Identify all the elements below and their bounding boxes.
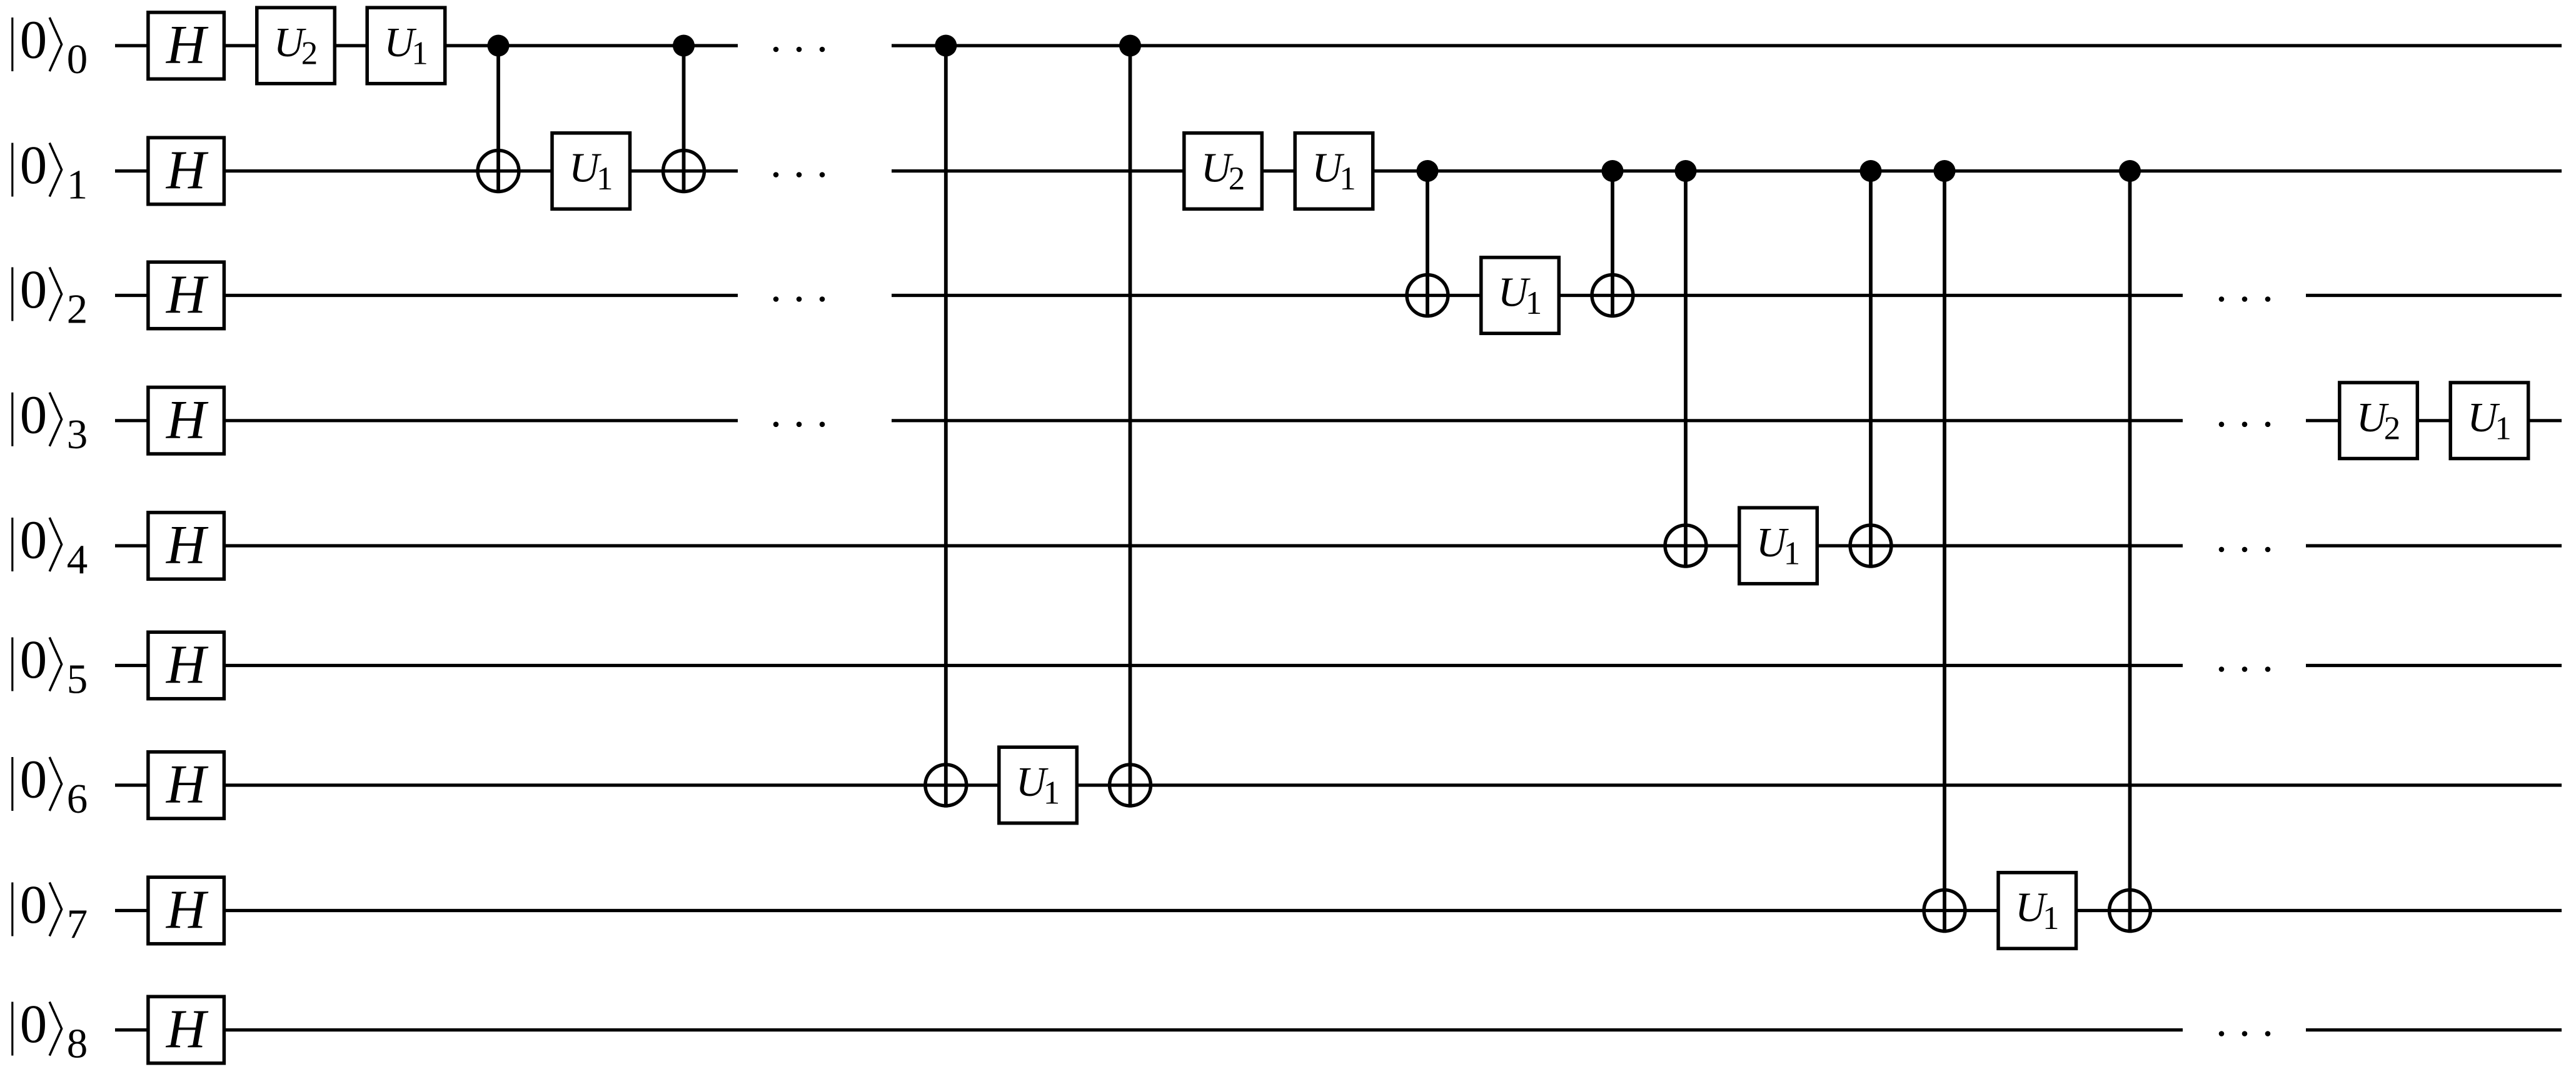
svg-text:1: 1 [1784,536,1801,572]
svg-text:1: 1 [1044,775,1060,811]
svg-text:1: 1 [67,162,88,208]
wire vertical control q0 to target q1 at x=797 [496,46,500,193]
gate H q6 [148,752,224,819]
gate U2 q3 at x=3804 [2340,383,2418,459]
gate U2 q0 at x=473 [257,8,335,84]
wire q8 segment 0 [115,1028,2183,1031]
svg-text:0: 0 [67,36,88,83]
wire q7 segment 0 [115,909,2562,912]
cnot target q2 at x=2579 [1592,275,1633,316]
svg-text:3: 3 [67,411,88,458]
control dot q0 at x=797 [488,35,510,57]
wire q0 segment 0 [115,44,738,47]
svg-text:H: H [166,515,209,576]
wire vertical control q1 to target q2 at x=2283 [1426,171,1429,318]
control dot q1 at x=2992 [1860,160,1882,182]
wire vertical control q1 to target q4 at x=2696 [1684,171,1688,568]
gate H q7 [148,877,224,944]
node label ket |0>_3 qubit q3 [11,384,88,458]
gate H q8 [148,996,224,1063]
gate U2 q1 at x=1956 [1184,133,1262,209]
gate U1 q1 at x=945.2 [552,133,630,209]
control dot q1 at x=3406.5 [2119,160,2141,182]
gate U1 q2 at x=2431 [1481,258,1559,334]
svg-text:2: 2 [1229,161,1245,197]
svg-text:4: 4 [67,536,88,583]
cnot target q6 at x=1807.5 [1110,765,1151,806]
cnot target q7 at x=3110 [1924,890,1965,931]
ellipsis dots q2 at x=3553-3627 [2219,296,2271,302]
svg-text:6: 6 [67,776,88,822]
svg-text:8: 8 [67,1021,88,1067]
control dot q0 at x=1093.5 [673,35,695,57]
ellipsis dots q1 at x=1241-1315 [773,172,825,178]
control dot q1 at x=3110 [1934,160,1956,182]
cnot target q7 at x=3406.5 [2110,890,2151,931]
control dot q1 at x=2579 [1602,160,1624,182]
svg-text:H: H [166,755,209,815]
wire vertical control q1 to target q2 at x=2579 [1611,171,1614,318]
wire vertical control q0 to target q6 at x=1807.5 [1129,46,1132,808]
gate U1 q0 at x=649.5 [367,8,445,84]
node label ket |0>_0 qubit q0 [11,9,88,83]
svg-text:5: 5 [67,656,88,703]
gate H q2 [148,262,224,329]
svg-text:0: 0 [20,993,48,1054]
wire q2 segment 0 [115,294,738,297]
wire q4 segment 0 [115,544,2183,547]
ellipsis dots q3 at x=3553-3627 [2219,422,2271,428]
wire q0 segment 1 [892,44,2562,47]
svg-text:H: H [166,635,209,695]
svg-text:0: 0 [20,509,48,570]
control dot q0 at x=1807.5 [1119,35,1141,57]
gate H q5 [148,632,224,698]
wire vertical control q1 to target q4 at x=2992 [1869,171,1873,568]
svg-text:1: 1 [596,161,613,197]
cnot target q2 at x=2283 [1407,275,1448,316]
cnot target q4 at x=2696 [1665,525,1706,566]
svg-text:1: 1 [2495,410,2512,446]
control dot q1 at x=2283 [1417,160,1439,182]
wire q2 segment 2 [2306,294,2562,297]
node label ket |0>_7 qubit q7 [11,874,88,948]
gate H q3 [148,388,224,454]
wire q8 segment 1 [2306,1028,2562,1031]
svg-text:0: 0 [20,384,48,444]
cnot target q4 at x=2992 [1850,525,1891,566]
ellipsis dots q4 at x=3553-3627 [2219,547,2271,553]
cnot target q6 at x=1512.8 [925,765,967,806]
svg-text:1: 1 [1339,161,1356,197]
ellipsis dots q3 at x=1241-1315 [773,422,825,428]
gate U1 q3 at x=3981.5 [2450,383,2528,459]
control dot q0 at x=1512.8 [935,35,957,57]
control dot q1 at x=2696 [1675,160,1697,182]
wire q1 segment 1 [892,169,2562,173]
wire q3 segment 0 [115,419,738,422]
svg-text:0: 0 [20,9,48,70]
svg-text:0: 0 [20,134,48,195]
node label ket |0>_5 qubit q5 [11,629,88,703]
wire q2 segment 1 [892,294,2183,297]
svg-text:H: H [166,15,209,76]
wire vertical control q0 to target q1 at x=1093.5 [682,46,686,193]
wire q3 segment 1 [892,419,2183,422]
node label ket |0>_2 qubit q2 [11,259,88,333]
gate H q4 [148,513,224,580]
svg-text:H: H [166,389,209,450]
wire vertical control q1 to target q7 at x=3406.5 [2128,171,2132,933]
cnot target q1 at x=1093.5 [663,151,705,192]
gate U1 q4 at x=2844 [1739,508,1818,584]
wire vertical control q0 to target q6 at x=1512.8 [944,46,948,808]
svg-text:1: 1 [2043,900,2060,936]
wire vertical control q1 to target q7 at x=3110 [1943,171,1946,933]
cnot target q1 at x=797 [478,151,519,192]
gate H q0 [148,13,224,79]
node label ket |0>_6 qubit q6 [11,749,88,823]
svg-text:1: 1 [1526,285,1542,321]
wire q3 segment 2 [2306,419,2562,422]
gate H q1 [148,138,224,204]
svg-text:H: H [166,264,209,325]
svg-text:7: 7 [67,901,88,948]
svg-text:2: 2 [301,36,318,72]
node label ket |0>_8 qubit q8 [11,993,88,1067]
ellipsis dots q2 at x=1241-1315 [773,296,825,302]
wire q5 segment 1 [2306,664,2562,667]
ellipsis dots q5 at x=3553-3627 [2219,666,2271,672]
svg-text:0: 0 [20,629,48,690]
svg-text:H: H [166,140,209,201]
node label ket |0>_1 qubit q1 [11,134,88,208]
svg-text:2: 2 [2384,410,2401,446]
ellipsis dots q8 at x=3553-3627 [2219,1031,2271,1036]
svg-text:H: H [166,999,209,1060]
svg-text:0: 0 [20,749,48,810]
svg-text:H: H [166,880,209,940]
wire q1 segment 0 [115,169,738,173]
ellipsis dots q0 at x=1241-1315 [773,47,825,53]
svg-text:0: 0 [20,874,48,935]
wire q4 segment 1 [2306,544,2562,547]
node label ket |0>_4 qubit q4 [11,509,88,583]
svg-text:1: 1 [411,36,428,72]
gate U1 q6 at x=1660 [999,747,1077,823]
svg-text:0: 0 [20,259,48,319]
svg-text:2: 2 [67,286,88,333]
gate U1 q1 at x=2133.5 [1295,133,1373,209]
wire q5 segment 0 [115,664,2183,667]
gate U1 q7 at x=3258.2 [1998,873,2076,949]
wire q6 segment 0 [115,783,2562,786]
